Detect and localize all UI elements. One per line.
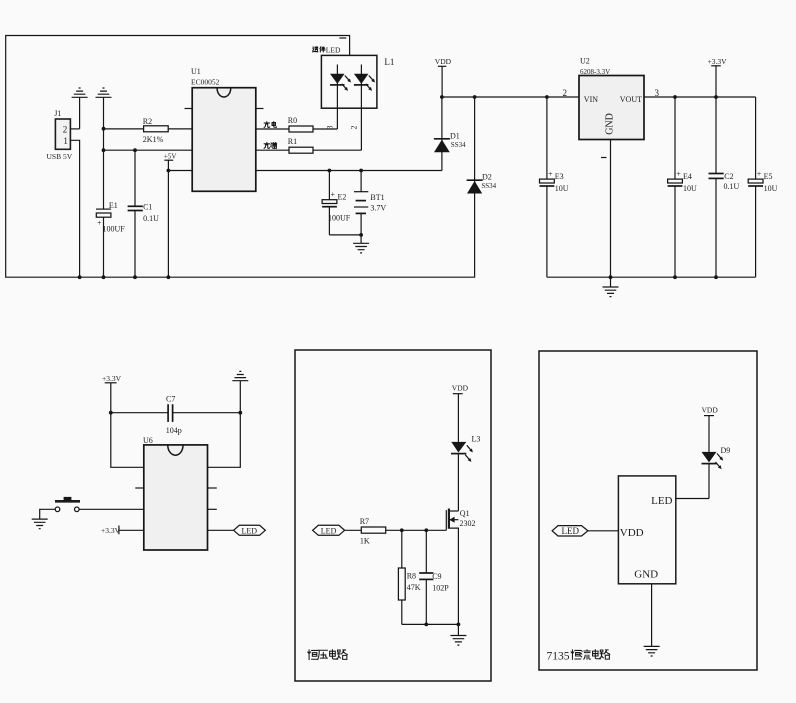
wire U1 right stub pin [256,108,264,110]
svg-text:C2: C2 [724,172,733,181]
svg-text:LED: LED [321,526,337,535]
svg-text:2: 2 [349,126,358,130]
svg-text:E4: E4 [683,172,692,181]
wire U6 left stub [135,487,144,489]
wire full row (充满) y=150.2 [256,149,289,151]
svg-text:E3: E3 [555,172,564,181]
resistor R0 [288,116,313,132]
svg-text:C7: C7 [166,395,175,404]
wire switch to U6 [79,508,144,510]
wire ground down and to U6 right pin [208,381,241,468]
switch S1 (pushbutton) [55,497,80,512]
ground (battery) [353,243,369,253]
svg-text:+3.3V: +3.3V [708,57,728,66]
svg-text:LED: LED [326,46,341,55]
frame box (7135恒流电路) [539,351,757,670]
capacitor E2 100UF [322,171,351,235]
power +3.3V symbol (U6 top) [102,374,122,383]
svg-text:VDD: VDD [702,406,719,415]
svg-text:+: + [757,170,762,179]
svg-text:2: 2 [63,124,68,134]
svg-text:D9: D9 [721,446,731,455]
wire J1 pin1 stub down to loop [70,140,79,277]
wire U2 bottom rail y=277.2 [547,276,756,278]
wire chip GND pin down [651,584,653,647]
wire VDD horizontal rail y=97 [442,96,579,98]
transistor Q1 2302 (NMOS) [446,509,475,625]
svg-text:GND: GND [634,569,658,581]
wire charge row (充电) y=129 [256,128,289,130]
diode D1 SS34 [434,97,466,171]
svg-text:E5: E5 [764,172,773,181]
ground (USB shield, inverted) [72,88,88,97]
svg-text:3: 3 [326,126,335,130]
connector J1 USB 5V [47,109,73,161]
svg-text:D1: D1 [450,132,460,141]
wire +3.3V down and to U6 pin [111,383,144,468]
capacitor E3 10U (on left vertical) [540,97,569,277]
main net loop wire (big open rectangle, top-left circuit) [6,36,475,278]
svg-text:R2: R2 [143,117,152,126]
wire ground1 to J1 pin2 [79,97,81,129]
svg-text:3: 3 [655,88,660,98]
svg-text:LED: LED [562,526,580,536]
svg-text:2K1%: 2K1% [143,135,164,144]
resistor R1 [288,137,313,153]
svg-text:E2: E2 [338,193,347,202]
svg-text:0.1U: 0.1U [143,214,159,223]
wire U1 left stub pin [185,108,193,110]
wire U6 right stubs [208,487,217,489]
svg-text:+: + [676,170,681,179]
svg-text:+: + [548,170,553,179]
svg-text:100UF: 100UF [328,214,351,223]
wire +5V to U1 [168,170,192,172]
svg-text:J1: J1 [54,109,61,118]
svg-text:10U: 10U [683,184,697,193]
wire switch left to ground [40,509,56,519]
wire bottom rail (middle box) [402,623,459,625]
svg-text:3.7V: 3.7V [370,204,386,213]
svg-text:VOUT: VOUT [620,95,642,104]
LED module L1 box [321,55,394,108]
wire +3.3V port to U6 [119,529,144,531]
svg-text:1: 1 [63,136,68,146]
LED D9 [702,446,731,499]
frame box (恒压电路) [295,350,491,681]
svg-text:2302: 2302 [460,519,476,528]
ground (middle box) [457,624,459,635]
resistor R8 47K (vertical) [398,530,420,624]
resistor R2 2K1% [143,117,168,144]
svg-text:C9: C9 [432,572,441,581]
wire U6 LED pin out [208,529,234,531]
svg-text:SS34: SS34 [481,182,496,190]
svg-text:R1: R1 [288,137,297,146]
net flag LED (right box input) [552,526,588,537]
LED L3 [451,435,480,512]
power VDD symbol [435,57,452,97]
wire J1 pin2 stub [70,128,79,130]
svg-text:+5V: +5V [164,152,177,160]
svg-text:SS34: SS34 [451,141,466,149]
capacitor E5 10U (on right vertical) [748,97,777,277]
wire U2 GND pin down [610,140,612,278]
svg-text:104p: 104p [166,426,182,435]
wire battery rail y=170.5 [256,170,442,172]
ground (right box) [644,646,660,656]
wire ground2 / E1 vertical [103,97,105,209]
wire R0 to L1 pin3 [313,128,337,130]
svg-text:USB 5V: USB 5V [47,152,73,161]
svg-text:L3: L3 [472,435,481,444]
wire R1 to L1 pin2 [313,149,361,151]
diode D2 SS34 (on right leg of loop) [467,173,497,194]
svg-text:100UF: 100UF [103,225,126,234]
ground (U6 top right, inverted) [232,371,248,380]
svg-text:U1: U1 [191,67,201,76]
capacitor C1 0.1U [128,150,160,279]
capacitor E4 10U [668,97,697,277]
pin number 1 dash (rotated) on L1 top pin [339,37,346,39]
svg-text:D2: D2 [482,173,492,182]
power VDD symbol (middle box) [452,384,469,442]
capacitor E1 100UF [96,201,125,234]
wire row y=150.2 [104,149,193,151]
svg-text:+3.3V: +3.3V [102,374,122,383]
title 恒压电路 [308,650,348,660]
MCU U6 [143,436,208,550]
battery BT1 3.7V [354,171,386,235]
svg-text:1K: 1K [360,537,370,546]
label 适伴LED [313,46,341,55]
svg-text:R0: R0 [288,116,297,125]
svg-text:LED: LED [242,526,258,535]
svg-text:10U: 10U [764,184,778,193]
power +3.3V port (U6 bottom-left pin) [101,526,121,535]
wire R7 to gate [386,529,447,531]
title 7135恒流电路 [547,650,610,663]
svg-text:GND: GND [604,113,615,135]
svg-text:VIN: VIN [584,95,598,104]
svg-text:47K: 47K [407,583,421,592]
node junction dots on VDD rail [440,95,444,99]
pin number 1 dash (U2 GND, rotated) [601,157,607,159]
svg-text:+: + [331,190,336,199]
svg-text:U6: U6 [143,436,153,445]
svg-text:E1: E1 [109,201,118,210]
net flag LED (U6 out) [234,525,266,535]
IC U1 EC00052 (charger) [191,67,256,191]
capacitor C9 102P [419,530,449,624]
regulator U2 6208-3.3V [579,57,644,140]
ground (U2 section) [610,277,612,287]
wire R2 row y=128.7 [104,128,193,130]
LED 1 inside L1 [330,65,352,130]
svg-text:L1: L1 [384,57,394,67]
svg-text:10U: 10U [555,184,569,193]
wire LED flag to R7 [345,529,362,531]
svg-text:C1: C1 [143,203,152,212]
power VDD symbol (right box) [702,406,719,452]
svg-text:+3.3V: +3.3V [101,526,121,535]
svg-text:6208-3.3V: 6208-3.3V [580,68,610,76]
wire U2 VOUT rail y=97 [644,96,756,98]
capacitor C7 104p [111,395,241,436]
svg-text:Q1: Q1 [460,509,470,518]
svg-text:LED: LED [651,495,672,507]
svg-text:2: 2 [563,88,568,98]
capacitor C2 0.1U [709,97,740,277]
svg-text:VDD: VDD [435,57,452,66]
svg-text:+: + [97,219,102,228]
IC 7135 chip [618,476,675,584]
wire LED flag to chip VDD pin [588,530,619,532]
svg-text:U2: U2 [580,57,590,66]
svg-text:7135: 7135 [547,651,570,663]
wire battery bottom connect [329,234,361,236]
wire chip LED pin to D9 [676,498,709,500]
resistor R7 1K [360,517,386,546]
net flag LED (middle box input) [313,525,345,535]
svg-text:VDD: VDD [452,384,469,393]
svg-text:R7: R7 [360,517,369,526]
power +3.3V symbol (right) [708,57,728,97]
svg-text:VDD: VDD [620,527,644,539]
svg-text:0.1U: 0.1U [724,182,740,191]
LED 2 inside L1 [354,65,376,151]
ground (switch) [32,519,48,529]
power +5V symbol [164,152,177,279]
svg-text:EC00052: EC00052 [191,77,220,86]
svg-text:102P: 102P [432,584,449,593]
svg-text:BT1: BT1 [370,193,384,202]
ground 2 (inverted) [96,88,112,97]
svg-text:R8: R8 [407,572,416,581]
